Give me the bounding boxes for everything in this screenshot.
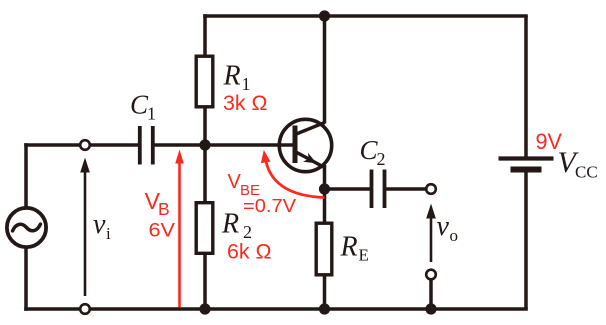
wire: R1 bottom lead	[203, 106, 207, 146]
arrow VB red shaft	[178, 160, 181, 308]
resistor RE	[316, 223, 332, 275]
transistor Q1 collector diagonal	[295, 123, 325, 135]
wire: emitter down to node	[323, 165, 327, 191]
node: emitter junction	[319, 183, 330, 194]
capacitor C1 plates	[140, 126, 153, 165]
resistor R2	[196, 203, 213, 254]
output terminal lower (open circle)	[426, 270, 436, 280]
node: base voltage divider junction	[199, 139, 210, 150]
wire: input line to C1	[24, 143, 139, 147]
wire: R2 bottom lead	[203, 253, 207, 309]
wire: R1 top lead	[203, 14, 207, 57]
svg-text:v: v	[93, 209, 106, 240]
arrow vi shaft	[84, 169, 87, 296]
svg-text:E: E	[359, 246, 369, 265]
wire: R2 top lead	[203, 144, 207, 203]
transistor Q1 emitter arrowhead	[303, 153, 317, 164]
node: RE bottom at ground rail	[319, 303, 330, 314]
wire: bottom rail	[24, 307, 528, 311]
arrow VB red head	[175, 150, 184, 164]
wire: left rail lower (AC source to bottom rail)	[24, 248, 28, 311]
output terminal upper (open circle)	[426, 184, 436, 194]
arrow vi head	[80, 158, 90, 173]
svg-text:3k Ω: 3k Ω	[223, 92, 268, 115]
node: output ground at bottom rail	[425, 303, 436, 314]
svg-text:2: 2	[243, 222, 252, 242]
ac source circle	[7, 208, 46, 247]
svg-text:=0.7V: =0.7V	[243, 195, 297, 216]
wire: RE bottom lead	[323, 275, 327, 309]
svg-text:R: R	[340, 231, 358, 262]
wire: left rail upper (input node to AC source)	[24, 143, 28, 207]
svg-text:i: i	[106, 224, 111, 243]
wire: RE top lead	[323, 187, 327, 223]
transistor Q1 emitter diagonal	[295, 152, 325, 168]
svg-text:B: B	[158, 199, 170, 219]
wire: top rail	[203, 14, 528, 18]
wire: right rail lower (battery - plate to bottom rail)	[524, 171, 528, 309]
svg-text:1: 1	[147, 104, 156, 124]
wire: emitter node to C2	[325, 187, 372, 191]
svg-text:o: o	[450, 226, 459, 245]
wire: C2 to output terminal	[385, 187, 427, 191]
wire: collector to top rail	[323, 16, 327, 124]
wire: C1 to base node to transistor base	[152, 143, 295, 147]
transistor Q1 base bar	[293, 126, 298, 164]
node: R2 bottom at ground rail	[199, 303, 210, 314]
input terminal lower (open circle)	[80, 304, 90, 314]
battery VCC long plate	[499, 156, 554, 160]
capacitor C2 plates	[372, 170, 385, 209]
arrow vo shaft	[430, 215, 433, 262]
wire: lower output terminal to bottom rail	[429, 279, 433, 309]
svg-text:2: 2	[377, 149, 386, 169]
svg-text:6V: 6V	[149, 220, 176, 242]
svg-text:6k Ω: 6k Ω	[227, 241, 272, 264]
transistor Q1 circle	[279, 119, 331, 171]
arc arrow VBE red head	[261, 150, 271, 163]
svg-text:v: v	[437, 211, 450, 242]
wire: right rail upper (top rail to battery + plate)	[524, 16, 528, 157]
ac source sine symbol	[13, 224, 41, 231]
arrow vo head	[426, 204, 436, 219]
input terminal upper (open circle)	[80, 140, 90, 150]
node: collector at top rail	[319, 10, 330, 21]
arc arrow VBE red	[265, 156, 325, 198]
svg-text:CC: CC	[575, 163, 598, 182]
battery VCC short plate	[511, 167, 542, 173]
resistor R1	[196, 56, 213, 107]
svg-text:R: R	[221, 209, 239, 240]
svg-text:1: 1	[242, 74, 251, 94]
svg-text:R: R	[223, 61, 241, 92]
